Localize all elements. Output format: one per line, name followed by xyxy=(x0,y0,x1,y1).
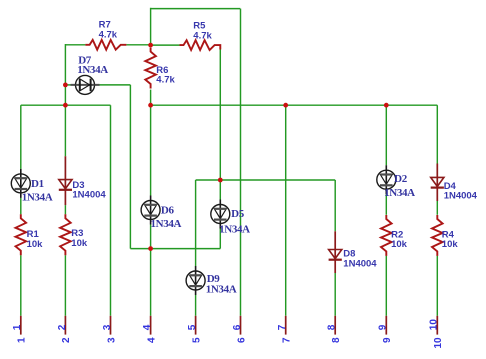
wire column pin2 lower xyxy=(64,255,66,316)
wire D7 cathode run xyxy=(99,84,130,86)
diode D6 1N34A xyxy=(141,196,181,231)
wire column pin8 upper xyxy=(334,180,336,231)
junction pin2/bus A xyxy=(63,103,68,108)
svg-text:4: 4 xyxy=(142,324,153,330)
wire column pin5 upper xyxy=(195,180,197,266)
diode D3 1N4004 xyxy=(59,156,107,205)
diode D8 1N4004 xyxy=(329,231,378,273)
svg-text:6: 6 xyxy=(232,324,243,330)
diode D1 1N34A xyxy=(11,169,52,204)
svg-text:9: 9 xyxy=(382,337,393,343)
wire D5 cathode drop xyxy=(219,229,221,249)
svg-text:1: 1 xyxy=(17,337,28,343)
wire bus A right xyxy=(151,104,438,106)
svg-text:4.7k: 4.7k xyxy=(99,30,118,41)
junction D7 anode node xyxy=(63,83,68,88)
svg-text:1N34A: 1N34A xyxy=(22,191,53,203)
svg-text:1N34A: 1N34A xyxy=(151,218,182,230)
pin 8 stub xyxy=(334,316,336,335)
wire column pin1 upper xyxy=(20,105,22,169)
diode D5 1N34A xyxy=(211,200,250,236)
svg-text:1N34A: 1N34A xyxy=(206,284,237,296)
svg-text:7: 7 xyxy=(282,337,293,343)
resistor R6 4.7k xyxy=(145,48,175,89)
resistor R3 10k xyxy=(60,214,88,255)
wire column pin7 xyxy=(285,105,287,316)
diode D2 1N34A xyxy=(377,165,415,199)
wire R7 left lead row xyxy=(65,44,85,46)
wire R5 left lead xyxy=(151,44,180,46)
wire top bus xyxy=(151,8,241,10)
svg-text:D6: D6 xyxy=(161,205,175,217)
wire R7 right to node xyxy=(126,44,150,46)
resistor R5 4.7k xyxy=(180,20,221,50)
junction pin4/H4 xyxy=(148,246,153,251)
svg-text:6: 6 xyxy=(236,337,247,343)
pin 2 stub xyxy=(64,316,66,335)
svg-text:2: 2 xyxy=(57,324,68,330)
svg-text:10: 10 xyxy=(429,319,440,331)
wire R5 right drop to D5 xyxy=(219,50,221,200)
wire column pin1 lower xyxy=(20,255,22,316)
svg-text:1: 1 xyxy=(12,324,23,330)
pin 3 stub xyxy=(110,316,112,335)
svg-text:10: 10 xyxy=(433,337,444,349)
svg-text:D1: D1 xyxy=(31,178,44,190)
wire D4 to R4 xyxy=(436,201,438,215)
junction R7/R5/R6 node xyxy=(148,43,153,48)
svg-text:5: 5 xyxy=(187,324,198,330)
svg-text:3: 3 xyxy=(102,324,113,330)
svg-text:10k: 10k xyxy=(391,239,408,250)
svg-text:D5: D5 xyxy=(231,208,245,220)
diode D4 1N4004 xyxy=(431,164,478,202)
svg-text:3: 3 xyxy=(106,337,117,343)
wire column pin9 upper xyxy=(385,105,387,165)
svg-text:10k: 10k xyxy=(71,238,88,249)
svg-text:4: 4 xyxy=(146,337,157,343)
diode D9 1N34A xyxy=(186,266,237,296)
wire column pin10 lower xyxy=(436,256,438,316)
resistor R7 4.7k xyxy=(85,20,126,50)
wire D7 anode stub xyxy=(65,84,70,86)
svg-text:1N4004: 1N4004 xyxy=(72,190,106,201)
wire column pin10 upper xyxy=(436,105,438,163)
pin 5 stub xyxy=(195,316,197,335)
svg-text:2: 2 xyxy=(61,337,72,343)
wire bus A left xyxy=(21,104,111,106)
svg-text:7: 7 xyxy=(277,324,288,330)
wire bus B xyxy=(196,179,336,181)
junction pin7/bus A xyxy=(283,103,288,108)
resistor R1 10k xyxy=(16,214,44,255)
wire column pin2 upper xyxy=(64,44,66,156)
svg-text:1N4004: 1N4004 xyxy=(343,258,377,269)
pin 9 stub xyxy=(385,316,387,335)
wire column pin3 xyxy=(110,105,112,316)
pin 1 stub xyxy=(20,316,22,335)
junction R6/bus A xyxy=(148,103,153,108)
wire top-left drop to R7/R5 node xyxy=(150,8,152,45)
wire H4 bus xyxy=(130,248,220,250)
svg-text:10k: 10k xyxy=(442,239,459,250)
wire column pin5 lower xyxy=(195,295,197,316)
wire column pin4 lower xyxy=(150,225,152,316)
svg-text:4.7k: 4.7k xyxy=(193,31,212,42)
wire R6 to D6 xyxy=(150,90,152,196)
wire D1 to R1 xyxy=(20,198,22,214)
wire D7 drop to H4 xyxy=(129,85,131,249)
wire column pin8 lower xyxy=(334,273,336,316)
junction D5/bus B xyxy=(218,178,223,183)
wire column pin9 lower xyxy=(385,256,387,316)
wire D2 to R2 xyxy=(385,194,387,215)
svg-text:8: 8 xyxy=(331,337,342,343)
resistor R4 10k xyxy=(432,215,458,256)
svg-text:8: 8 xyxy=(327,324,338,330)
svg-text:1N4004: 1N4004 xyxy=(444,190,478,201)
svg-text:1N34A: 1N34A xyxy=(384,187,415,199)
svg-text:9: 9 xyxy=(378,324,389,330)
svg-text:1N34A: 1N34A xyxy=(77,64,108,76)
svg-text:D2: D2 xyxy=(394,173,408,185)
diode D7 1N34A xyxy=(71,54,109,94)
svg-text:10k: 10k xyxy=(27,239,44,250)
wire D3 to R3 xyxy=(64,205,66,214)
junction pin9/bus A xyxy=(384,103,389,108)
pin 7 stub xyxy=(285,316,287,335)
svg-text:4.7k: 4.7k xyxy=(156,75,175,86)
pin 6 stub xyxy=(240,316,242,335)
svg-text:5: 5 xyxy=(191,337,202,343)
svg-text:1N34A: 1N34A xyxy=(219,223,250,235)
resistor R2 10k xyxy=(381,215,408,256)
pin 10 stub xyxy=(436,316,438,335)
pin 4 stub xyxy=(150,316,152,335)
wire column pin6 xyxy=(240,9,242,316)
